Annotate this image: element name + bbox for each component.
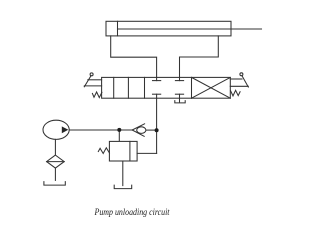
svg-text:Pump unloading circuit: Pump unloading circuit [94,208,170,218]
